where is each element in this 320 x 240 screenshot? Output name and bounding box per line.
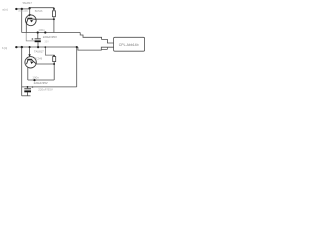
transistor Q2 <box>25 57 36 68</box>
node dot cap1 bottom <box>37 46 39 48</box>
resistor R1 <box>53 11 56 17</box>
svg-text:100n: 100n <box>32 75 39 79</box>
wire rail1 w1 <box>22 32 80 34</box>
wire emitter lead Q2 <box>27 67 29 80</box>
wire ground stub H7 <box>22 95 31 97</box>
wire collector lead Q2 <box>36 63 54 65</box>
wire left vertical from node A1 <box>21 9 23 33</box>
jack plug tip bottom edge <box>101 48 107 50</box>
wire input A <box>15 8 30 10</box>
resistor R1 lead bottom <box>53 17 55 33</box>
wire rail2 <box>28 79 54 81</box>
node dot R2 tap <box>53 63 55 65</box>
svg-text:TAU817: TAU817 <box>22 1 32 5</box>
wire riser to R2 top <box>45 47 54 57</box>
node dot rail1 mid <box>44 31 46 33</box>
wire ground riser <box>76 47 78 87</box>
node dot rail2 <box>33 79 35 81</box>
svg-text:BC546: BC546 <box>35 58 43 61</box>
arrowhead into Q2 top <box>28 54 31 56</box>
wire emitter lead Q1 <box>25 24 27 33</box>
node dot input B <box>15 46 17 48</box>
node dot junction B1 <box>21 46 23 48</box>
svg-text:a [n]: a [n] <box>2 8 7 12</box>
capacitor C1 top lead <box>37 33 39 39</box>
wire base lead Q1 <box>29 9 31 15</box>
node dot ground riser <box>76 46 78 48</box>
resistor R2 lead bottom <box>53 62 55 80</box>
transistor Q1 base bar <box>27 18 32 20</box>
jack plug body <box>114 37 145 51</box>
svg-text:100n: 100n <box>38 28 45 32</box>
transistor Q2 emitter slant <box>27 60 29 64</box>
svg-text:8C546B: 8C546B <box>19 9 29 13</box>
svg-text:35V: 35V <box>44 40 49 43</box>
transistor Q2 collector slant <box>32 60 36 64</box>
jack plug tip right vertical <box>106 47 108 49</box>
node dot riser R2 <box>44 46 46 48</box>
svg-text:220uF/35V: 220uF/35V <box>38 87 53 91</box>
transistor Q2 arrow <box>30 61 33 64</box>
wire emitter elbow to C1 <box>26 33 34 41</box>
wire left vertical from node B1 long <box>21 47 23 96</box>
node dot R2 top <box>53 55 55 57</box>
node dot input A <box>15 8 17 10</box>
node dot cap2 top <box>27 86 29 88</box>
svg-text:220uF/35V: 220uF/35V <box>43 35 57 39</box>
wire input B w2 <box>15 46 78 48</box>
resistor R2 <box>53 57 56 62</box>
capacitor C2 bottom lead <box>27 92 29 96</box>
node dot junction A1 <box>21 8 23 10</box>
plus sign C2 <box>32 86 34 88</box>
capacitor C1 bottom lead <box>37 42 39 47</box>
node dot R1 tap <box>53 18 55 20</box>
wire w2 jog down to plug <box>78 47 114 50</box>
wire base lead Q2 <box>29 47 31 55</box>
transistor Q1 collector slant <box>32 18 36 20</box>
transistor Q1 emitter slant <box>26 19 28 24</box>
capacitor C2 <box>24 86 33 92</box>
capacitor C2 top lead <box>27 87 29 88</box>
node dot Q2 base tap <box>29 46 31 48</box>
node dot R1 top <box>53 8 55 10</box>
node dot rail1 cap <box>37 31 39 33</box>
transistor Q1 <box>25 15 36 26</box>
svg-text:220uF/35V: 220uF/35V <box>34 81 48 85</box>
svg-text:b [n]: b [n] <box>2 46 7 50</box>
plus sign C1 <box>31 38 33 40</box>
transistor Q2 base bar <box>27 59 32 61</box>
svg-text:BC546: BC546 <box>35 10 43 13</box>
wire collector lead Q1 <box>36 18 54 20</box>
capacitor C1 <box>31 38 40 42</box>
wire w1 jog to plug <box>80 33 113 44</box>
wire ground rail H5 <box>22 86 77 88</box>
svg-text:CPL-Abb14b: CPL-Abb14b <box>119 43 139 47</box>
wire rail to R1 top <box>30 8 54 11</box>
arrowhead into Q1 top <box>28 14 31 16</box>
svg-text:TAU817: TAU817 <box>34 49 44 53</box>
node blob corner A2 <box>28 7 30 9</box>
transistor Q1 arrow <box>30 20 33 23</box>
